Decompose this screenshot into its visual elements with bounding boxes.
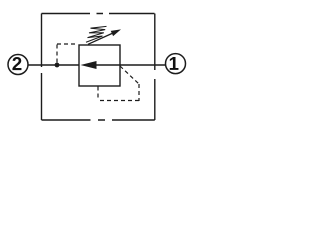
- pilot line from node to valve top-left: [57, 44, 78, 63]
- pilot line from port1 side to valve bottom: [98, 66, 139, 101]
- port label 1: [170, 57, 179, 70]
- flow arrow inside valve: [81, 61, 97, 69]
- junction node dot: [55, 63, 60, 68]
- cartridge boundary bottom edge: [42, 119, 155, 121]
- cartridge boundary left edge: [41, 14, 43, 121]
- wire port2 to valve: [29, 64, 80, 66]
- cartridge boundary top edge: [42, 13, 155, 15]
- cartridge boundary right edge: [154, 14, 156, 121]
- port circle 2: [8, 55, 28, 75]
- spring (adjustable): [86, 26, 107, 42]
- wire valve to port1: [96, 64, 165, 66]
- port circle 1: [166, 54, 186, 74]
- port label 2: [12, 57, 21, 70]
- valve body V1: [79, 45, 120, 86]
- adjustment arrow: [88, 33, 113, 44]
